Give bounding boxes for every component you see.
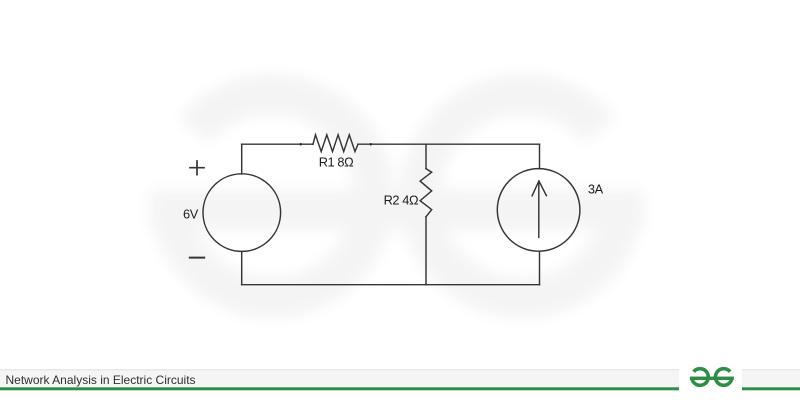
wire left branch upper bbox=[241, 144, 243, 174]
label R2 4Ω bbox=[384, 193, 419, 208]
wire top-left segment bbox=[242, 143, 313, 145]
label R1 8Ω bbox=[319, 154, 354, 169]
voltage source V1 bbox=[203, 174, 281, 252]
plus sign bbox=[190, 161, 204, 175]
wire right branch lower bbox=[539, 251, 541, 285]
junction on top wire (right) bbox=[370, 143, 372, 145]
resistor R2 bbox=[420, 169, 432, 217]
wire right branch upper bbox=[539, 144, 541, 169]
wire top-right segment bbox=[358, 143, 540, 145]
label 3A bbox=[588, 181, 604, 196]
footer band bbox=[0, 369, 800, 387]
current source I1 bbox=[497, 169, 580, 252]
svg-text:R1 8Ω: R1 8Ω bbox=[319, 154, 354, 169]
wire left branch lower bbox=[241, 251, 243, 284]
wire middle branch lower bbox=[425, 217, 427, 285]
GeeksforGeeks logo bbox=[690, 369, 734, 386]
logo white box bbox=[679, 358, 742, 400]
minus sign bbox=[190, 257, 204, 259]
resistor R1 bbox=[313, 135, 358, 152]
svg-text:Network Analysis in Electric C: Network Analysis in Electric Circuits bbox=[6, 373, 196, 387]
footer title bbox=[6, 373, 196, 387]
wire middle branch upper bbox=[425, 144, 427, 168]
svg-text:6V: 6V bbox=[183, 206, 199, 221]
wire bottom segment bbox=[242, 284, 540, 286]
svg-text:3A: 3A bbox=[588, 181, 604, 196]
footer green line bbox=[0, 387, 800, 390]
current arrow bbox=[532, 181, 546, 237]
junction on top wire (left) bbox=[300, 143, 302, 145]
svg-text:R2 4Ω: R2 4Ω bbox=[384, 193, 419, 208]
label 6V bbox=[183, 206, 199, 221]
